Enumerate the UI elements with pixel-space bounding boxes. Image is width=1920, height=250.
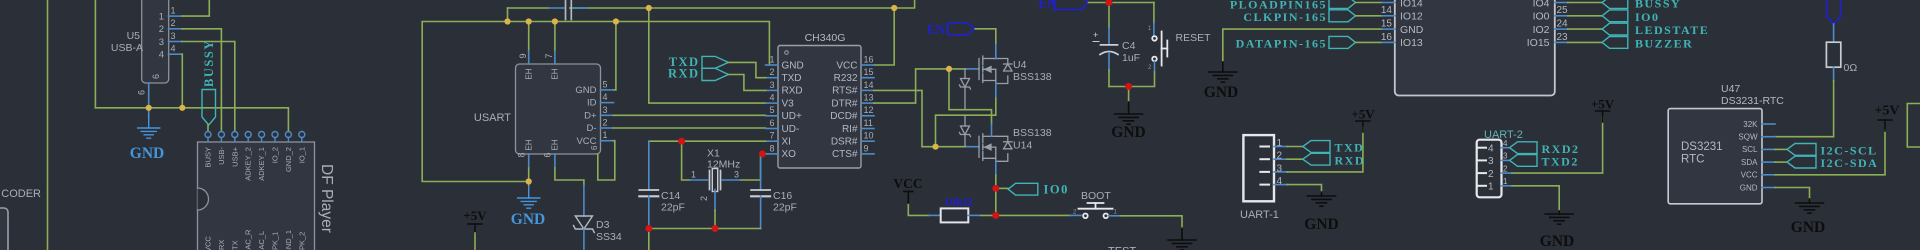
UART-1 pin 3 <box>1260 171 1269 173</box>
svg-text:4: 4 <box>1503 139 1508 148</box>
svg-text:DCD#: DCD# <box>830 111 858 122</box>
junction dots top layer <box>146 5 953 185</box>
svg-text:3: 3 <box>734 170 739 180</box>
wire vertical far left full height <box>47 0 49 250</box>
CH340 pin 7 XI <box>766 140 778 142</box>
transistor U4 BSS138 <box>979 56 1012 84</box>
svg-text:SS34: SS34 <box>596 231 622 243</box>
svg-text:GND: GND <box>1204 84 1238 101</box>
wire pin1 to TXD label <box>1287 146 1303 148</box>
svg-text:1: 1 <box>171 6 176 16</box>
svg-text:DS3231: DS3231 <box>1681 141 1723 153</box>
svg-text:BSS138: BSS138 <box>1013 127 1052 139</box>
svg-text:GND: GND <box>511 211 545 228</box>
svg-text:24: 24 <box>1557 19 1569 30</box>
wire D- to UD- <box>614 127 766 129</box>
svg-text:14: 14 <box>1381 5 1393 16</box>
svg-text:GND: GND <box>1791 219 1825 236</box>
DS3231 pin SDA <box>1762 161 1775 163</box>
svg-text:EH: EH <box>551 139 560 150</box>
ground GND under reset area <box>1222 62 1224 72</box>
svg-text:VCC: VCC <box>1741 171 1758 180</box>
svg-text:ADKEY_1: ADKEY_1 <box>257 147 266 181</box>
svg-text:UD-: UD- <box>782 124 800 135</box>
CH340 pin 9 CTS# <box>861 153 874 155</box>
svg-text:1: 1 <box>159 12 164 23</box>
UART-1 pin 2 <box>1260 158 1269 160</box>
crystal X1 12MHz <box>690 179 708 181</box>
svg-text:6: 6 <box>137 90 147 95</box>
svg-text:+5V: +5V <box>1351 107 1375 122</box>
svg-text:13: 13 <box>864 93 874 103</box>
svg-text:IO_1: IO_1 <box>297 147 306 163</box>
U14 drain pin <box>991 124 993 136</box>
svg-text:CTS#: CTS# <box>832 149 858 160</box>
label BUZZER <box>1602 37 1628 49</box>
svg-text:2: 2 <box>603 118 608 128</box>
svg-text:DF Player: DF Player <box>318 164 335 233</box>
wire BOOT to gnd <box>1109 215 1121 217</box>
svg-text:4: 4 <box>603 92 608 102</box>
wire RXD to pin3 <box>728 75 765 91</box>
wire V3 drop to pin4 <box>649 8 766 103</box>
node junction X1 pin1 <box>678 138 685 145</box>
svg-text:2: 2 <box>171 18 176 28</box>
svg-text:EH: EH <box>525 68 534 79</box>
svg-text:RI#: RI# <box>842 124 858 135</box>
connector U5 USB-A body <box>142 0 169 83</box>
svg-text:EH: EH <box>525 139 534 150</box>
svg-text:VCC: VCC <box>893 176 922 191</box>
wire EN to U4 drain <box>975 29 996 43</box>
chip left pin 16 IO13 <box>1382 41 1395 43</box>
svg-text:5: 5 <box>769 105 774 115</box>
wire pin4 to gnd <box>1287 185 1322 192</box>
svg-text:IO2: IO2 <box>1533 24 1550 36</box>
svg-text:SDA: SDA <box>1741 158 1758 167</box>
wire DTR to U4 gate <box>874 69 949 103</box>
UART-2 pin 4 <box>1479 147 1487 149</box>
node junction X1 pin2 gnd <box>712 225 719 232</box>
svg-text:2: 2 <box>769 67 774 77</box>
svg-text:GND_1: GND_1 <box>284 230 293 250</box>
label I2C-SCL <box>1787 144 1816 156</box>
label TXD uart1 <box>1303 141 1330 153</box>
DF pin IO_1 <box>299 132 305 138</box>
chip right pin IO4 <box>1555 2 1568 4</box>
CH340 pin 1 GND <box>766 64 778 66</box>
wire U14 source down <box>995 175 997 188</box>
wire USART pin9 down <box>528 22 530 52</box>
UART-1 pin 4 <box>1260 184 1269 186</box>
svg-text:3: 3 <box>1277 163 1283 174</box>
wire USART pin7 down <box>554 22 556 52</box>
svg-text:0Ω: 0Ω <box>1844 62 1858 74</box>
wire pin3 to +5V <box>1287 127 1363 172</box>
wire D+ to UD+ <box>614 114 766 116</box>
node junction IO0 <box>992 185 999 192</box>
svg-text:GND: GND <box>1111 124 1145 141</box>
CH340 pin 10 DSR# <box>861 140 874 142</box>
U5 pin 4 <box>169 53 183 55</box>
wire SCL to label <box>1775 148 1787 150</box>
ground under BOOT <box>1181 228 1183 240</box>
wire X1 pin1 drop <box>682 141 690 180</box>
svg-text:3: 3 <box>603 105 608 115</box>
wire BUSSY to DF pin <box>207 125 209 131</box>
svg-text:25: 25 <box>1557 5 1569 16</box>
svg-text:+5V: +5V <box>1874 104 1899 119</box>
svg-text:14: 14 <box>864 80 874 90</box>
wire pin2 to RXD label <box>1287 158 1303 160</box>
svg-text:4: 4 <box>1277 176 1283 187</box>
node junction U14 gate <box>933 144 939 150</box>
svg-text:RXD: RXD <box>1335 153 1366 167</box>
svg-text:UART-1: UART-1 <box>1240 209 1279 221</box>
ground under DS3231 <box>1809 199 1811 203</box>
svg-text:DAC_L: DAC_L <box>257 231 266 250</box>
svg-text:15: 15 <box>864 67 874 77</box>
connector UART-1 body <box>1243 135 1274 201</box>
CH340 pin 3 RXD <box>766 89 778 91</box>
label shape RXD pentagon <box>702 68 728 80</box>
svg-text:2: 2 <box>699 196 709 201</box>
wire reset bottom to gnd <box>1154 62 1156 73</box>
resistor R 0ohm <box>1833 24 1835 42</box>
svg-text:GND: GND <box>1400 24 1424 36</box>
label IO0 <box>1008 183 1038 195</box>
svg-text:GND_2: GND_2 <box>284 147 293 172</box>
DS3231 pin GND <box>1762 187 1775 189</box>
capacitor C4 1uF <box>1108 3 1110 29</box>
svg-text:GND: GND <box>1304 216 1338 233</box>
U5 pin 2 <box>169 28 183 30</box>
svg-text:3: 3 <box>1488 156 1494 167</box>
svg-text:RXD: RXD <box>668 66 700 80</box>
wire right edge bracket <box>1907 104 1920 148</box>
svg-text:DATAPIN-165: DATAPIN-165 <box>1236 36 1327 50</box>
svg-text:IO0: IO0 <box>1635 10 1660 24</box>
svg-text:IO4: IO4 <box>1533 0 1550 9</box>
wire USART pin6 to D3 <box>555 168 584 185</box>
svg-text:6: 6 <box>151 74 161 79</box>
wire USB pin2 to DF USB- <box>182 29 221 132</box>
label RXD uart1 <box>1303 153 1330 165</box>
wire U4 gate stub <box>949 68 966 70</box>
svg-text:1: 1 <box>691 170 696 180</box>
svg-text:2: 2 <box>1488 169 1494 180</box>
svg-text:DTR#: DTR# <box>831 98 858 109</box>
wire TXD to pin2 <box>728 62 765 77</box>
capacitor C14 22pF <box>648 141 650 190</box>
svg-text:+5V: +5V <box>463 208 487 223</box>
wire EN2 to reset rail <box>1089 2 1154 4</box>
svg-text:USB-A: USB-A <box>111 42 143 54</box>
USART right pin 1 VCC <box>601 140 614 142</box>
label IO0 right <box>1602 10 1628 22</box>
label LEDSTATE <box>1602 23 1628 35</box>
svg-text:+: + <box>1093 30 1098 40</box>
label BUSSY right <box>1602 0 1628 8</box>
svg-text:8: 8 <box>769 143 774 153</box>
svg-text:USB-: USB- <box>217 147 226 165</box>
svg-text:1: 1 <box>603 130 608 140</box>
svg-text:+5V: +5V <box>1591 97 1615 112</box>
wire USART pin5 GND up <box>614 22 616 90</box>
ground under UART-1 <box>1321 192 1323 196</box>
svg-text:D+: D+ <box>584 110 597 121</box>
UART-2 pin 3 <box>1479 159 1487 161</box>
svg-text:GND: GND <box>575 85 596 96</box>
USART right pin 4 ID <box>601 102 614 104</box>
svg-text:D-: D- <box>586 123 596 134</box>
svg-text:16: 16 <box>1381 32 1393 43</box>
svg-text:C4: C4 <box>1122 40 1136 52</box>
ground GND2 under USART <box>528 182 530 187</box>
label RXD2 <box>1510 142 1537 154</box>
svg-text:D3: D3 <box>596 219 610 231</box>
wire USART pin1 to bottom loop <box>598 141 615 180</box>
svg-text:3: 3 <box>1503 152 1508 161</box>
node junction gnd3 <box>1125 83 1132 90</box>
svg-text:IO0: IO0 <box>1044 183 1069 197</box>
svg-text:GND: GND <box>130 145 164 162</box>
svg-text:4: 4 <box>769 93 774 103</box>
svg-text:RTS#: RTS# <box>832 86 858 97</box>
diode D3 SS34 <box>583 185 585 216</box>
svg-text:TXD2: TXD2 <box>1542 155 1579 169</box>
wire USB pin6 to gnd node <box>148 96 150 108</box>
node junction USART pin7 <box>552 19 558 25</box>
svg-text:IO_2: IO_2 <box>271 147 280 163</box>
CH340 pin 15 R232 <box>861 77 874 79</box>
svg-text:16: 16 <box>864 54 874 64</box>
svg-text:RESET: RESET <box>1176 32 1212 44</box>
wire main horizontal GND bus under USB <box>95 108 288 132</box>
CH340 pin 8 XO <box>766 153 778 155</box>
DF pin GND_2 <box>285 132 291 138</box>
svg-text:IO14: IO14 <box>1400 0 1423 9</box>
svg-text:10: 10 <box>864 131 874 141</box>
wire GND pin <box>1775 188 1810 200</box>
UART-1 pin 1 <box>1260 146 1269 148</box>
svg-text:6: 6 <box>543 152 553 157</box>
wire USART pin8 to gnd node <box>528 168 530 182</box>
chip right pin 24 IO2 <box>1555 28 1568 30</box>
CH340 pin 2 TXD <box>766 77 778 79</box>
wire to IO0 label <box>996 187 1008 189</box>
svg-text:15: 15 <box>1381 19 1393 30</box>
svg-text:C14: C14 <box>661 190 680 202</box>
chip U47 DS3231 body <box>1668 109 1762 204</box>
wire clkpin <box>1356 15 1382 17</box>
svg-text:IO0: IO0 <box>1533 11 1550 23</box>
svg-text:1: 1 <box>1503 177 1508 186</box>
DF pin BUSY <box>205 132 211 138</box>
chip left pin 13 IO14 <box>1382 2 1395 4</box>
svg-text:BUSY: BUSY <box>204 147 213 167</box>
chip IO expander body <box>1395 0 1555 96</box>
node junction CH340 VCC <box>891 5 897 11</box>
DF pin USB+ <box>232 132 238 138</box>
svg-text:U47: U47 <box>1721 83 1740 95</box>
svg-text:1: 1 <box>1488 182 1494 193</box>
wire IO4 to BUSSY <box>1568 2 1602 4</box>
ground GND1 under USB <box>148 108 150 117</box>
capacitor C16 22pF <box>760 158 762 190</box>
connector USART body <box>516 64 601 154</box>
wire to BOOT button <box>996 214 1070 216</box>
svg-text:6: 6 <box>590 145 599 150</box>
ground GND3 black <box>1128 87 1130 103</box>
USART bottom pin 8 <box>528 154 530 168</box>
node junction pin4 <box>180 105 186 111</box>
CH340 pin 16 VCC <box>861 64 874 66</box>
USART top pin 9 <box>528 51 530 64</box>
node junction C4 top <box>1106 0 1113 6</box>
wire U14 source to boot rail <box>995 188 997 215</box>
svg-text:SPK_2: SPK_2 <box>297 232 306 250</box>
transistor U14 BSS138 <box>979 134 1012 162</box>
USART right pin 3 D+ <box>601 114 614 116</box>
wire SDA to label <box>1775 161 1787 163</box>
connector UART-2 body <box>1477 140 1502 198</box>
svg-text:7: 7 <box>769 131 774 141</box>
svg-text:22pF: 22pF <box>661 202 685 214</box>
wire GND rail B with left loop around USART <box>422 22 769 182</box>
svg-text:3: 3 <box>159 37 164 48</box>
wire USB pin4 down <box>181 54 183 108</box>
wire crystal GND rail <box>649 228 761 230</box>
svg-text:TXD: TXD <box>782 73 802 84</box>
svg-text:XO: XO <box>782 149 797 160</box>
svg-text:RX: RX <box>217 240 226 250</box>
wire XO to crystal <box>762 153 765 155</box>
svg-text:22pF: 22pF <box>773 202 797 214</box>
svg-text:VCC: VCC <box>204 236 213 250</box>
svg-text:7: 7 <box>544 53 554 58</box>
svg-text:DSR#: DSR# <box>831 137 858 148</box>
USART right pin 5 GND <box>601 89 614 91</box>
svg-text:IO12: IO12 <box>1400 11 1423 23</box>
wire cross A gate4 to drain14 <box>949 69 992 124</box>
svg-text:USB+: USB+ <box>230 146 239 166</box>
svg-text:ADKEY_2: ADKEY_2 <box>244 147 253 181</box>
svg-text:IO13: IO13 <box>1400 37 1423 49</box>
svg-text:V3: V3 <box>782 98 795 109</box>
CH340 pin 14 RTS# <box>861 89 874 91</box>
svg-text:C16: C16 <box>773 190 792 202</box>
wire X1 pin2 down <box>714 190 716 211</box>
DF pin IO_2 <box>272 132 278 138</box>
DS3231 pin SQW <box>1762 136 1775 138</box>
node junction boot rail <box>992 212 999 219</box>
wire pin1 to gnd <box>1512 186 1559 211</box>
ground under UART-2 <box>1558 211 1560 214</box>
svg-text:I2C-SDA: I2C-SDA <box>1821 156 1879 170</box>
svg-text:IO15: IO15 <box>1527 37 1550 49</box>
svg-text:EN: EN <box>927 22 946 37</box>
svg-text:8: 8 <box>517 152 527 157</box>
wire pin2 to +5V <box>1512 117 1603 173</box>
DS3231 pin 32K <box>1762 123 1775 125</box>
UART-2 pin 2 <box>1479 172 1487 174</box>
wire VCC to 10k <box>908 205 929 216</box>
wire USB pin1 up <box>182 0 209 16</box>
CH340 pin 11 RI# <box>861 128 874 130</box>
chip left pin 14 IO12 <box>1382 15 1395 17</box>
wire cross B gate14 to source4 <box>936 97 996 147</box>
svg-text:1uF: 1uF <box>1122 52 1140 64</box>
node junction on B <box>505 19 511 25</box>
CH340 pin 12 DCD# <box>861 115 874 117</box>
svg-text:3: 3 <box>769 80 774 90</box>
wire IO0 to label <box>1568 15 1602 17</box>
wire IO2 to LEDSTATE <box>1568 28 1602 30</box>
connector DECODER body <box>0 208 8 250</box>
svg-text:U4: U4 <box>1013 59 1027 71</box>
wire A to B tie <box>507 8 509 22</box>
svg-text:10kΩ: 10kΩ <box>944 195 973 209</box>
svg-text:SQW: SQW <box>1738 133 1758 142</box>
chip left pin 15 GND <box>1382 28 1395 30</box>
svg-text:4: 4 <box>159 50 164 61</box>
svg-text:4: 4 <box>171 44 176 54</box>
resistor R 10k body <box>929 214 941 216</box>
module DF Player body <box>198 142 315 250</box>
svg-text:RXD: RXD <box>782 86 803 97</box>
node junction XO <box>759 151 766 158</box>
svg-text:VCC: VCC <box>836 60 857 71</box>
svg-text:ID: ID <box>587 98 597 109</box>
chip right pin 25 IO0 <box>1555 15 1568 17</box>
label TXD2 <box>1510 155 1537 167</box>
svg-text:GND: GND <box>1740 183 1758 192</box>
label shape TXD pentagon <box>702 56 728 68</box>
node junction USB gnd <box>146 105 152 111</box>
svg-text:1: 1 <box>769 54 774 64</box>
svg-text:TX: TX <box>230 240 239 250</box>
svg-text:9: 9 <box>864 143 869 153</box>
DF pin ADKEY_1 <box>259 132 265 138</box>
svg-text:SCL: SCL <box>1742 145 1758 154</box>
label vertical net label top <box>1827 0 1841 24</box>
CH340 pin 13 DTR# <box>861 102 874 104</box>
svg-text:LEDSTATE: LEDSTATE <box>1635 23 1709 37</box>
svg-text:6: 6 <box>769 118 774 128</box>
svg-text:VCC: VCC <box>576 136 596 147</box>
DS3231 pin SCL <box>1762 148 1775 150</box>
svg-text:2: 2 <box>1503 164 1508 173</box>
svg-text:13: 13 <box>1381 0 1393 3</box>
svg-text:3: 3 <box>171 31 176 41</box>
svg-text:USART: USART <box>474 112 511 124</box>
svg-text:4: 4 <box>1488 144 1494 155</box>
svg-text:U14: U14 <box>1013 140 1032 152</box>
chip right pin 23 IO15 <box>1555 41 1568 43</box>
node junction U4 gate <box>946 66 952 72</box>
svg-text:BUSSY: BUSSY <box>202 39 216 87</box>
svg-text:DS3231-RTC: DS3231-RTC <box>1721 95 1784 107</box>
DF pin USB- <box>218 132 224 138</box>
wire datapin <box>1356 41 1382 43</box>
wire VCC to +5V <box>1775 130 1885 175</box>
CH340 pin 6 UD- <box>766 128 778 130</box>
svg-text:TEST: TEST <box>1108 246 1136 250</box>
svg-text:XI: XI <box>782 137 791 148</box>
wire reset top drop <box>1153 3 1155 23</box>
svg-text:5: 5 <box>603 79 608 89</box>
